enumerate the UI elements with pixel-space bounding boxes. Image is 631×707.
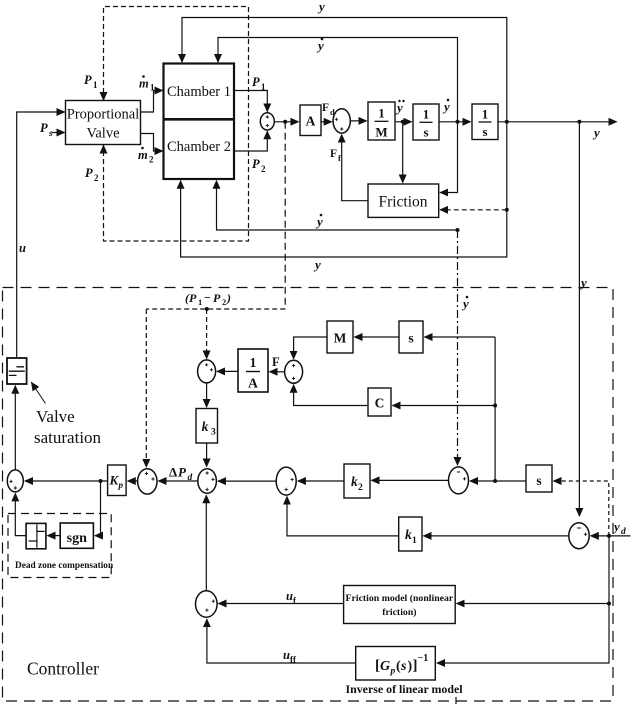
wire force sum to 1/M xyxy=(350,120,366,122)
node y tap 1 xyxy=(505,120,509,124)
wire friction model to sum F xyxy=(219,603,344,605)
svg-text:2: 2 xyxy=(149,155,154,165)
wire sgn branch down xyxy=(95,481,101,536)
svg-text:k: k xyxy=(405,527,412,542)
svg-text:s: s xyxy=(536,473,541,488)
svg-text:sgn: sgn xyxy=(67,531,87,546)
summing junction E xyxy=(276,467,296,495)
summing junction u xyxy=(7,470,23,492)
svg-text:s: s xyxy=(423,125,428,140)
svg-text:Controller: Controller xyxy=(27,659,99,679)
block Kp xyxy=(108,465,127,496)
label ydotdot xyxy=(395,100,405,115)
wire k1 to sum E xyxy=(287,497,399,536)
svg-text:p: p xyxy=(390,667,396,677)
block 1/s second integrator xyxy=(472,104,498,140)
svg-text:2: 2 xyxy=(222,297,226,307)
block 1/M xyxy=(368,102,395,140)
svg-text:1: 1 xyxy=(93,80,98,90)
net P1-P2 dashed into sum Kp xyxy=(145,309,147,467)
label uff xyxy=(283,648,297,665)
wire M to sum MC top xyxy=(294,337,327,359)
wire y feedback top into chamber1 xyxy=(182,18,507,122)
block dead zone xyxy=(26,523,46,548)
svg-text:2: 2 xyxy=(358,483,363,493)
arrow P1 into valve top xyxy=(103,92,105,100)
wire u into valve xyxy=(17,112,65,358)
svg-text:A: A xyxy=(306,114,316,129)
svg-text:Inverse of linear model: Inverse of linear model xyxy=(346,682,464,696)
block M xyxy=(327,321,353,353)
wire DPd out to sum Kp xyxy=(159,480,198,482)
wire C to sum MC bottom xyxy=(294,385,368,406)
svg-text:C: C xyxy=(375,396,385,411)
wire k3 to sum DPd xyxy=(206,443,208,467)
wire A to force sum xyxy=(321,121,332,123)
wire sum F up to sum DPd xyxy=(205,495,207,591)
block C xyxy=(368,388,391,416)
svg-text:F: F xyxy=(272,355,280,369)
wire into s upper xyxy=(425,336,496,338)
wire mdot1 valve to chamber1 xyxy=(141,91,163,113)
dead zone compensation dashed box xyxy=(8,514,111,578)
svg-text:P: P xyxy=(213,291,221,305)
svg-text:P: P xyxy=(40,121,48,135)
block A xyxy=(300,105,321,136)
summing junction P1-P2 xyxy=(260,113,274,130)
svg-text:F: F xyxy=(330,148,337,160)
svg-text:F: F xyxy=(322,102,329,114)
svg-text:Valve: Valve xyxy=(86,126,119,142)
net P1-P2 dashed horizontal xyxy=(146,308,285,310)
svg-text:P: P xyxy=(252,75,260,89)
summing junction before Kp xyxy=(138,469,157,494)
node ydot tap k2line xyxy=(493,479,497,483)
wire sum to Kp xyxy=(128,480,138,482)
wire Ff Friction to force sum xyxy=(342,135,368,201)
wire 1/M to 1/s xyxy=(395,121,412,123)
svg-text:−: − xyxy=(204,291,211,305)
wire yd input xyxy=(591,535,631,537)
wire s lower to sum k2 xyxy=(470,480,526,482)
svg-text:P: P xyxy=(178,465,187,480)
wire sum E to sum DPd xyxy=(218,480,276,482)
svg-text:m: m xyxy=(139,77,149,91)
wire 1/s to 1/s xyxy=(439,121,471,123)
node friction model tap xyxy=(607,602,611,606)
node ydot tap C xyxy=(493,404,497,408)
node P1-P2 branch xyxy=(205,307,209,311)
svg-text:Chamber 2: Chamber 2 xyxy=(167,139,231,155)
summing junction ydot k2 xyxy=(449,467,469,494)
wire into C xyxy=(393,405,496,407)
svg-text:y: y xyxy=(579,275,587,290)
svg-text:Friction: Friction xyxy=(378,194,427,211)
summing junction DPd xyxy=(198,469,217,494)
wire sum k2 to k2 xyxy=(372,479,449,481)
svg-text:Chamber 1: Chamber 1 xyxy=(167,84,231,100)
wire y down to yd sum xyxy=(578,122,580,516)
summing junction A (P1-P2 compare) xyxy=(198,360,216,383)
wire u up to valve saturation xyxy=(14,386,16,470)
svg-text:Friction model (nonlinear: Friction model (nonlinear xyxy=(346,593,454,604)
wire Gp to sum F xyxy=(207,619,356,663)
valve Proportional Valve xyxy=(66,101,141,145)
svg-text:): ) xyxy=(226,291,231,305)
svg-text:u: u xyxy=(283,648,290,662)
svg-text:y: y xyxy=(395,100,403,115)
wire sgn to dead zone block xyxy=(48,535,61,537)
wire sum to A xyxy=(274,121,298,123)
svg-text:Δ: Δ xyxy=(169,465,177,480)
svg-text:P: P xyxy=(252,157,260,171)
wire ydot feedback bottom into chamber2 xyxy=(217,181,458,230)
node y tap 2 xyxy=(577,120,581,124)
block 1/A xyxy=(238,349,268,392)
summing junction yd xyxy=(569,523,589,549)
svg-text:y: y xyxy=(313,257,321,272)
bottom tick xyxy=(455,697,457,704)
svg-text:d: d xyxy=(330,107,335,117)
svg-text:1: 1 xyxy=(198,297,202,307)
wire yd sum to k1 xyxy=(424,535,569,537)
wire P2 chamber2 to sum xyxy=(234,131,267,151)
wire sum A to k3 xyxy=(206,383,208,407)
svg-text:k: k xyxy=(202,419,209,434)
svg-text:u: u xyxy=(286,589,293,603)
svg-text:G: G xyxy=(380,659,390,674)
svg-text:s: s xyxy=(48,128,53,138)
wire yd down right xyxy=(437,536,609,663)
block 1/s first integrator xyxy=(413,104,439,140)
net P1-P2 dashed down xyxy=(284,122,286,309)
svg-text:y: y xyxy=(442,99,450,114)
svg-text:2: 2 xyxy=(94,173,99,183)
svg-text:y: y xyxy=(592,125,600,140)
svg-text:y: y xyxy=(316,38,324,53)
wire y feedback bottom into chamber2 xyxy=(181,122,507,257)
svg-text:1: 1 xyxy=(482,107,489,122)
arrow P2 into valve bottom xyxy=(103,146,105,154)
node y tap friction xyxy=(505,208,509,212)
annotation arrow valve saturation xyxy=(32,383,46,404)
label ydot bottom xyxy=(315,214,323,229)
node sgn tap xyxy=(99,479,103,483)
svg-text:f: f xyxy=(338,153,341,163)
svg-text:3: 3 xyxy=(211,428,216,438)
block friction model xyxy=(344,586,456,624)
wire dead zone to sum u xyxy=(15,493,26,535)
wire y dashed into Friction right xyxy=(440,209,507,211)
svg-text:Proportional: Proportional xyxy=(67,107,140,123)
svg-text:Valve: Valve xyxy=(36,407,75,426)
node yd tap xyxy=(607,534,611,538)
node ydot tap xyxy=(456,120,460,124)
svg-text:ff: ff xyxy=(290,655,297,665)
label uf xyxy=(286,589,297,606)
svg-text:m: m xyxy=(138,148,148,162)
svg-text:M: M xyxy=(334,331,347,346)
net P1/P2 pressure feedback dashed box xyxy=(104,7,249,242)
svg-text:d: d xyxy=(621,527,626,537)
wire ydot into Friction right xyxy=(440,122,457,193)
block s upper xyxy=(399,321,423,353)
block s lower xyxy=(526,465,552,492)
svg-text:u: u xyxy=(19,241,26,255)
block Gp inverse xyxy=(356,647,436,681)
wire yd dashed into s lower xyxy=(554,481,609,536)
svg-text:s: s xyxy=(408,331,413,346)
label yd xyxy=(612,519,626,537)
svg-text:y: y xyxy=(317,0,325,14)
svg-text:k: k xyxy=(351,474,358,489)
svg-text:1: 1 xyxy=(412,536,417,546)
block k2 xyxy=(344,464,370,498)
wire P1 chamber1 to sum xyxy=(234,91,267,112)
block k1 xyxy=(399,517,422,551)
label (P1-P2) xyxy=(185,291,231,308)
wire Kp to sum u xyxy=(25,480,108,482)
wire into friction model xyxy=(457,603,609,605)
svg-text:1: 1 xyxy=(378,106,385,121)
wire 1/A to sum A xyxy=(217,370,238,372)
svg-text:Dead zone compensation: Dead zone compensation xyxy=(15,561,114,571)
wire y output xyxy=(498,121,617,123)
wire s to M xyxy=(355,336,400,338)
block valve saturation xyxy=(7,358,27,384)
node ydot tap bottom xyxy=(456,228,460,232)
label DPd xyxy=(169,465,193,484)
wire ydot feedback top into chamber1 xyxy=(218,38,458,122)
svg-text:y: y xyxy=(612,519,620,534)
svg-text:y: y xyxy=(461,296,469,311)
svg-text:s: s xyxy=(400,659,407,674)
label mdot1 xyxy=(139,75,155,92)
svg-text:P: P xyxy=(85,166,93,180)
wire ydot branch vertical xyxy=(494,337,496,481)
svg-text:M: M xyxy=(375,125,387,140)
svg-text:s: s xyxy=(482,124,487,139)
node ydotdot tap xyxy=(401,120,405,124)
block Chamber 1 / Chamber 2 xyxy=(164,64,235,180)
svg-text:A: A xyxy=(248,376,258,391)
summing junction force Fd+Ff xyxy=(333,109,350,133)
block k3 xyxy=(196,409,218,444)
wire ydotdot down to Friction xyxy=(402,122,404,183)
block Friction xyxy=(368,184,439,217)
block sgn xyxy=(60,523,93,548)
svg-text:P: P xyxy=(84,73,92,87)
label Valve saturation xyxy=(34,407,102,447)
node P1-P2 tap xyxy=(283,120,287,124)
label ydot mid xyxy=(442,99,450,114)
svg-text:(P: (P xyxy=(185,291,197,305)
svg-text:1: 1 xyxy=(250,355,257,370)
svg-text:p: p xyxy=(118,480,124,490)
net ydot dash-dot down to controller xyxy=(457,230,459,465)
svg-text:saturation: saturation xyxy=(34,428,102,447)
svg-text:y: y xyxy=(315,214,323,229)
wire k2 to sum E xyxy=(298,480,344,482)
label ydot top xyxy=(316,38,324,53)
svg-text:1: 1 xyxy=(261,82,266,92)
summing junction F uf+uff xyxy=(196,591,218,617)
svg-text:1: 1 xyxy=(150,83,155,93)
svg-text:d: d xyxy=(188,473,193,483)
summing junction M+C xyxy=(285,360,303,383)
svg-text:−1: −1 xyxy=(418,653,429,664)
wire mdot2 valve to chamber2 xyxy=(141,134,163,152)
label ydot controller xyxy=(461,296,469,311)
controller dashed boundary xyxy=(3,288,614,702)
wire sum MC to 1/A xyxy=(270,371,285,373)
svg-text:friction): friction) xyxy=(382,607,416,618)
net P1-P2 dashed into sum A xyxy=(206,309,208,359)
label mdot2 xyxy=(138,147,154,165)
wire Ps into valve xyxy=(52,132,65,134)
svg-text:2: 2 xyxy=(261,164,266,174)
svg-text:1: 1 xyxy=(423,107,430,122)
